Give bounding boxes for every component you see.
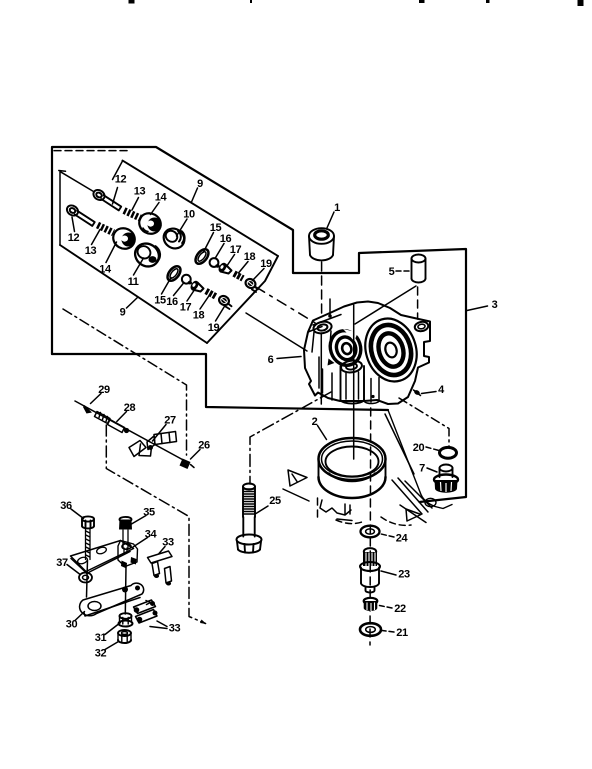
mounting tick marks xyxy=(318,498,353,521)
dash-dot line pump to washer 20 xyxy=(399,398,449,446)
plate 30 xyxy=(80,583,144,616)
cropped text mark 2 xyxy=(250,0,252,3)
screw 12 row2 xyxy=(65,203,95,226)
svg-text:18: 18 xyxy=(244,251,256,263)
svg-text:29: 29 xyxy=(98,384,110,396)
nut 31 xyxy=(119,613,133,626)
leader 16 row2 xyxy=(174,283,185,296)
svg-text:36: 36 xyxy=(60,500,72,512)
wire solid diagonal to pump left xyxy=(246,313,307,351)
o-ring 15 row2 xyxy=(165,264,183,283)
svg-text:19: 19 xyxy=(260,258,272,270)
svg-text:18: 18 xyxy=(193,310,205,322)
pump bottom right port xyxy=(364,376,379,402)
rod 28 segment 1 xyxy=(95,412,111,424)
washer 24 xyxy=(361,526,380,538)
leader 27 xyxy=(153,425,167,442)
bolt 36 xyxy=(82,516,94,597)
svg-text:26: 26 xyxy=(198,440,210,452)
pump right ear ring xyxy=(414,321,429,332)
pump housing 6 outline xyxy=(304,302,430,405)
leader 19 row1 xyxy=(253,269,265,281)
spring 13 row1 xyxy=(124,211,142,219)
inner parallelogram left edge xyxy=(59,172,61,246)
svg-text:4: 4 xyxy=(438,384,445,396)
leader 6 xyxy=(277,357,301,359)
svg-text:9: 9 xyxy=(197,178,203,190)
svg-text:19: 19 xyxy=(208,322,220,334)
cone 17 row2 xyxy=(189,279,204,291)
leader 7 xyxy=(427,468,437,472)
spring 18 row1 xyxy=(234,274,243,279)
leaders 33 lower xyxy=(150,621,167,629)
rod 28 axis line xyxy=(75,401,186,462)
screw 12 row1 xyxy=(92,188,122,211)
inner parallelogram right edge xyxy=(207,256,278,343)
svg-text:31: 31 xyxy=(95,632,107,644)
rod pivot dot xyxy=(124,428,129,433)
pump bottom boss xyxy=(341,366,365,404)
mounting hole xyxy=(425,498,436,506)
leader 18 row2 xyxy=(200,297,209,310)
pump top ridge line xyxy=(308,315,341,333)
svg-text:6: 6 xyxy=(268,354,274,366)
leader 20 dashes xyxy=(426,447,439,451)
bracket 33 lower xyxy=(134,600,158,623)
cone 17 row1 xyxy=(217,261,232,273)
svg-text:13: 13 xyxy=(134,186,146,198)
svg-text:17: 17 xyxy=(230,244,242,256)
leader 21 dashes xyxy=(382,631,394,633)
pump small dot xyxy=(371,395,374,398)
leader 19 row2 xyxy=(216,306,226,322)
cup 10 xyxy=(160,225,188,253)
leader 13 row2 xyxy=(92,230,101,245)
leader label 3 xyxy=(467,306,488,311)
svg-text:33: 33 xyxy=(162,537,174,549)
cropped text mark 4 xyxy=(486,0,490,3)
leader 24 dashes xyxy=(381,534,394,537)
svg-text:12: 12 xyxy=(115,174,127,186)
pump left column lines xyxy=(319,357,332,400)
leader 26 xyxy=(191,450,201,460)
inner parallelogram corner tick xyxy=(59,170,66,173)
svg-text:10: 10 xyxy=(183,209,195,221)
svg-text:34: 34 xyxy=(145,529,158,541)
cropped text mark 5 xyxy=(578,0,584,6)
bracket 33 upper xyxy=(148,551,173,586)
svg-text:20: 20 xyxy=(413,442,425,454)
leader 10 xyxy=(177,219,188,236)
leader label 12 row1 to peak xyxy=(113,161,123,180)
svg-text:12: 12 xyxy=(68,232,80,244)
leader 30 xyxy=(75,612,85,621)
poppet 14 row1 xyxy=(135,209,164,237)
washer 21 xyxy=(360,623,381,636)
pump centerline right xyxy=(353,305,355,459)
wire dash from part 5 down to ear xyxy=(417,287,419,319)
bolt 26 xyxy=(180,459,195,470)
leader 36 xyxy=(71,509,84,519)
mounting sketch edge xyxy=(388,410,452,509)
svg-text:14: 14 xyxy=(155,192,168,204)
screw 19 row2 xyxy=(217,294,231,309)
bolt 4 xyxy=(413,389,420,396)
cam ring 2 xyxy=(319,438,386,498)
pump centerline left xyxy=(320,333,322,404)
clamp 27 U piece xyxy=(139,444,152,456)
inner parallelogram top edge xyxy=(123,161,279,257)
nut 22 xyxy=(364,598,378,611)
leader 17 row1 xyxy=(227,255,235,267)
dash-dot rod drop xyxy=(106,425,205,624)
leader 23 xyxy=(381,571,396,575)
svg-text:14: 14 xyxy=(99,264,112,276)
bolt 35 xyxy=(119,517,132,553)
svg-text:22: 22 xyxy=(394,603,406,615)
wire dashed below part 1 xyxy=(321,262,323,318)
wire dashed axis through drain parts xyxy=(369,408,372,645)
leader 37 xyxy=(67,565,80,575)
rod segment 1 hatch xyxy=(99,413,108,422)
short line above pump xyxy=(329,299,331,316)
relief valve 23 xyxy=(360,548,380,592)
node dot above pump xyxy=(328,314,332,318)
leader 33 upper xyxy=(159,547,165,554)
svg-text:28: 28 xyxy=(124,402,136,414)
washer 20 xyxy=(440,447,457,458)
mounting sketch edge inner xyxy=(385,414,414,474)
seat 16 row1 xyxy=(210,258,220,268)
wire dashed axis row1 to pump xyxy=(256,287,317,324)
mounting curved dashes xyxy=(381,517,411,525)
svg-text:1: 1 xyxy=(334,202,340,214)
svg-text:35: 35 xyxy=(143,507,155,519)
pump left flange ring xyxy=(312,320,332,335)
svg-text:23: 23 xyxy=(398,569,410,581)
leader 35 xyxy=(132,516,147,525)
leader 13 row1 xyxy=(132,198,139,211)
leader label 5 dashes xyxy=(396,270,409,272)
svg-text:13: 13 xyxy=(85,245,97,257)
svg-text:21: 21 xyxy=(396,627,408,639)
rod 28 segment 2 xyxy=(108,420,125,433)
svg-text:17: 17 xyxy=(180,302,192,314)
leader 28 xyxy=(117,412,127,422)
leader 15 row2 xyxy=(162,278,172,295)
leader 31 xyxy=(105,623,121,635)
leader 16 row1 xyxy=(215,244,224,259)
svg-text:11: 11 xyxy=(128,276,139,288)
nut 32 xyxy=(118,630,131,643)
leader 4 xyxy=(422,392,437,394)
pump right rotor rings xyxy=(358,312,425,388)
svg-text:3: 3 xyxy=(492,299,498,311)
mounting arrow left xyxy=(283,470,309,501)
svg-text:15: 15 xyxy=(154,295,166,307)
svg-text:33: 33 xyxy=(169,623,181,635)
leader 12 row2 xyxy=(72,217,75,232)
outer boundary bottom-left xyxy=(52,354,388,410)
svg-text:30: 30 xyxy=(66,619,78,631)
center drop line xyxy=(124,567,127,615)
row1 axis line from corner xyxy=(61,172,94,192)
leader label 1 xyxy=(327,212,335,229)
pump arrow mark left xyxy=(328,359,335,366)
leader 29 xyxy=(91,394,102,404)
screw 19 row1 xyxy=(244,277,258,292)
svg-text:25: 25 xyxy=(269,495,281,507)
mounting squiggle feet xyxy=(320,500,351,515)
bolt 25 xyxy=(237,484,262,553)
leader 14 row2 xyxy=(106,242,117,263)
svg-text:2: 2 xyxy=(312,416,318,428)
leader 9 top xyxy=(192,188,198,202)
seat 16 row2 xyxy=(182,275,192,285)
leader 2 xyxy=(318,426,327,440)
rod end arrow 29 xyxy=(83,405,92,414)
svg-text:27: 27 xyxy=(164,415,176,427)
part 5 dowel cylinder xyxy=(412,255,426,283)
cropped text mark 1 xyxy=(129,0,135,4)
leader 32 xyxy=(105,642,119,650)
leader 25 xyxy=(256,506,268,514)
mounting arrow right xyxy=(400,505,426,523)
block 34 xyxy=(118,541,138,569)
pump left flange pedestal xyxy=(312,331,331,352)
inner parallelogram bottom edge xyxy=(60,245,207,343)
outer boundary left/top xyxy=(52,147,466,502)
leader 22 dashes xyxy=(380,606,393,609)
leader 15 row1 xyxy=(204,233,214,253)
svg-text:37: 37 xyxy=(56,557,68,569)
cup 11 xyxy=(131,239,164,271)
dash-dot line pump to bolt 25 xyxy=(250,392,331,484)
svg-text:9: 9 xyxy=(120,307,126,319)
poppet 14 row2 xyxy=(109,224,138,252)
pump gerotor arcs xyxy=(325,325,366,369)
mounting hatch lines xyxy=(392,478,432,514)
arrow tick at boundary end xyxy=(200,620,207,625)
leader 9 bottom xyxy=(127,297,139,308)
o-ring 15 row1 xyxy=(193,247,211,266)
svg-text:32: 32 xyxy=(95,648,107,660)
cropped text mark 3 xyxy=(419,0,425,3)
clamp 27 block xyxy=(129,432,177,457)
leader 18 row1 xyxy=(239,262,249,274)
dash-dot boundary upper xyxy=(63,309,187,455)
part 1 bushing cylinder xyxy=(309,228,334,260)
svg-text:16: 16 xyxy=(166,296,178,308)
pump center ring xyxy=(340,359,362,373)
washer 37 xyxy=(79,573,92,583)
leader 34 xyxy=(133,538,148,548)
svg-text:5: 5 xyxy=(389,266,395,278)
plug 7 xyxy=(434,465,458,493)
leader 11 xyxy=(134,258,144,275)
outer boundary top edge inner dashes xyxy=(54,150,130,152)
leader 17 row2 xyxy=(187,289,195,301)
leader 12 row1 xyxy=(113,188,118,205)
spring 18 row2 xyxy=(206,291,216,296)
wire solid from part 5 to pump xyxy=(355,286,416,324)
svg-text:24: 24 xyxy=(396,533,409,545)
plate 34 top plate xyxy=(71,541,134,574)
svg-text:7: 7 xyxy=(419,463,425,475)
spring 13 row2 xyxy=(98,225,114,233)
leader 14 row1 xyxy=(151,203,160,215)
